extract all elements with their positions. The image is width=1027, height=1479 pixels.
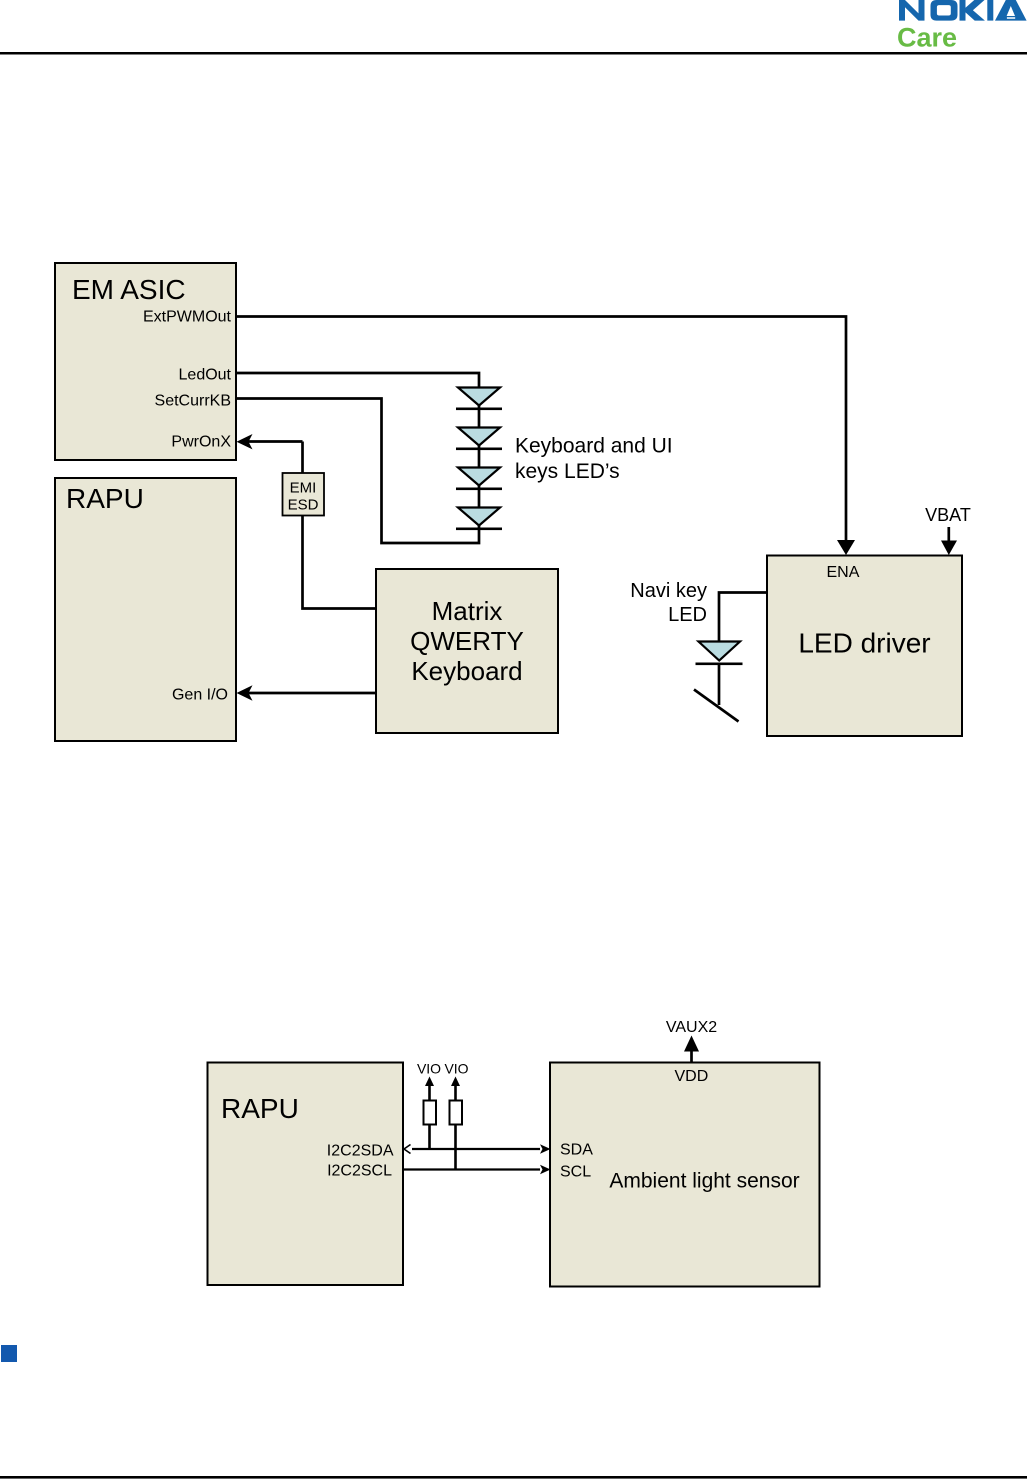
svg-text:Matrix: Matrix: [432, 596, 503, 626]
svg-text:EM ASIC: EM ASIC: [72, 274, 186, 305]
wire below navi LED: [718, 665, 721, 705]
LED D4: [456, 508, 502, 531]
svg-text:Ambient light sensor: Ambient light sensor: [609, 1170, 799, 1193]
svg-text:I2C2SDA: I2C2SDA: [327, 1143, 394, 1160]
svg-text:Keyboard and UI: Keyboard and UI: [515, 435, 673, 458]
block RAPU: [55, 478, 236, 741]
svg-text:ENA: ENA: [827, 564, 860, 581]
svg-text:RAPU: RAPU: [66, 483, 144, 514]
svg-text:LED driver: LED driver: [798, 628, 930, 659]
EMI ESD filter: [283, 473, 325, 516]
svg-text:ExtPWMOut: ExtPWMOut: [143, 309, 232, 326]
LED navi key: [696, 642, 743, 666]
wire keyboard to Gen I/O: [248, 692, 376, 695]
label Navi key LED: [630, 580, 707, 626]
svg-text:ESD: ESD: [288, 497, 319, 514]
svg-text:SDA: SDA: [560, 1142, 593, 1159]
svg-text:LedOut: LedOut: [179, 367, 232, 384]
block Matrix QWERTY Keyboard: [376, 569, 558, 733]
wire SDA (I2C2SDA to sensor): [412, 1148, 540, 1150]
arrow into ENA: [837, 540, 855, 555]
wire LedOut to LED chain: [236, 373, 479, 388]
arrow into Gen I/O: [237, 685, 253, 700]
pull-up resistor R2 (SCL): [444, 1061, 468, 1170]
wire SetCurrKB to LED chain bottom: [236, 399, 479, 544]
svg-text:keys LED’s: keys LED’s: [515, 460, 620, 483]
svg-text:SCL: SCL: [560, 1164, 591, 1181]
footer rule: [0, 1476, 1027, 1479]
arrow into PwrOnX: [237, 434, 253, 449]
block Ambient light sensor: [550, 1063, 820, 1287]
wire EMI ESD to Matrix keyboard: [303, 516, 377, 609]
svg-text:Care: Care: [897, 23, 957, 53]
svg-text:VBAT: VBAT: [925, 505, 971, 525]
svg-text:VIO: VIO: [444, 1061, 468, 1077]
label Keyboard and UI keys LED's: [515, 435, 673, 484]
LED D3: [456, 468, 502, 491]
block LED driver: [767, 556, 962, 737]
wire LED driver to navi LED: [719, 593, 767, 643]
block RAPU (lower diagram): [208, 1063, 404, 1286]
svg-text:I2C2SCL: I2C2SCL: [327, 1163, 392, 1180]
svg-text:SetCurrKB: SetCurrKB: [155, 393, 231, 410]
wire PwrOnX from EMI ESD: [248, 442, 303, 474]
pull-up resistor R1 (SDA): [417, 1061, 441, 1150]
wire ExtPWMOut to LED driver ENA: [236, 317, 846, 542]
power VAUX2: [666, 1019, 717, 1063]
power VBAT: [925, 505, 971, 555]
svg-text:VAUX2: VAUX2: [666, 1019, 717, 1036]
svg-text:Keyboard: Keyboard: [411, 656, 522, 686]
svg-text:Navi key: Navi key: [630, 580, 707, 602]
LED D2: [456, 428, 502, 451]
LED chain connecting wire: [478, 387, 481, 530]
svg-text:EMI: EMI: [290, 480, 317, 497]
arrow SDA left: [404, 1145, 411, 1154]
svg-text:VIO: VIO: [417, 1061, 441, 1077]
svg-text:RAPU: RAPU: [221, 1093, 299, 1124]
svg-text:VDD: VDD: [675, 1068, 709, 1085]
svg-text:QWERTY: QWERTY: [410, 626, 524, 656]
arrow SCL right: [540, 1165, 551, 1174]
arrow SDA right: [540, 1144, 551, 1153]
svg-text:PwrOnX: PwrOnX: [171, 434, 231, 451]
svg-text:Gen I/O: Gen I/O: [172, 687, 228, 704]
Nokia logo: [899, 0, 1027, 21]
section bullet: [1, 1345, 17, 1362]
wire SCL (I2C2SCL to sensor): [403, 1168, 540, 1170]
svg-text:LED: LED: [668, 604, 707, 626]
ground slash: [694, 690, 739, 722]
LED D1: [456, 388, 502, 411]
header rule: [0, 52, 1027, 55]
block EM ASIC: [55, 263, 236, 460]
